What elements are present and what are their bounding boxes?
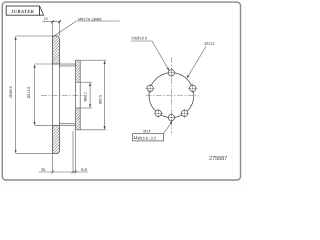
drawing border frame [2, 2, 240, 180]
svg-text:JURATEK: JURATEK [10, 9, 35, 15]
svg-text:Ø112: Ø112 [205, 41, 216, 46]
svg-text:Ø14: Ø14 [143, 129, 150, 133]
disc hatched band bottom [53, 126, 60, 154]
bolt hole lower-left [155, 110, 161, 116]
svg-text:5XØ16.6: 5XØ16.6 [132, 36, 148, 41]
disc corner chamfers [57, 36, 60, 39]
note MIN TH 13MM [55, 21, 120, 36]
disc hatched band top [53, 36, 60, 64]
flange upper section [76, 60, 81, 82]
dimension 10 (disc thickness) [43, 20, 61, 36]
hole center marks [145, 68, 197, 122]
disc friction ring outline [53, 36, 60, 154]
svg-text:8.8: 8.8 [81, 167, 87, 172]
page background [0, 0, 246, 186]
svg-text:10: 10 [44, 17, 48, 21]
bolt hole lower-right [181, 110, 187, 116]
dimension Ø280.8 [16, 36, 53, 154]
svg-text:MIN TH 13MM: MIN TH 13MM [78, 17, 101, 21]
hat wall bottom [60, 124, 76, 126]
dimension Ø97.5 [74, 60, 106, 130]
svg-text:Ø280.8: Ø280.8 [9, 86, 13, 97]
svg-text:Ø114.8: Ø114.8 [27, 87, 31, 98]
bottom dimensions 26 / 8.8 [39, 131, 89, 173]
svg-text:26: 26 [41, 167, 46, 172]
hat wall top [60, 64, 76, 66]
svg-text:Ø97.5: Ø97.5 [99, 95, 103, 104]
bolt hole upper-left [147, 85, 153, 91]
svg-text:Ø68.2: Ø68.2 [84, 92, 88, 101]
PCD circle Ø112 [149, 73, 194, 118]
bolt holes 5x + locating hole [147, 70, 196, 121]
dimension Ø68.2 [80, 82, 92, 108]
centerlines [146, 57, 199, 134]
logo box [6, 6, 39, 15]
dimension Ø114.8 [35, 64, 60, 126]
left view axis centerline [41, 94, 84, 96]
svg-text:Ø15.8 ↓3.2: Ø15.8 ↓3.2 [138, 136, 156, 141]
bolt hole upper-right [190, 85, 196, 91]
bore walls projection [75, 82, 77, 108]
bolt hole top [168, 70, 174, 76]
svg-text:275687: 275687 [209, 155, 227, 162]
locating hole bottom [168, 114, 174, 120]
flange lower section [76, 108, 81, 130]
